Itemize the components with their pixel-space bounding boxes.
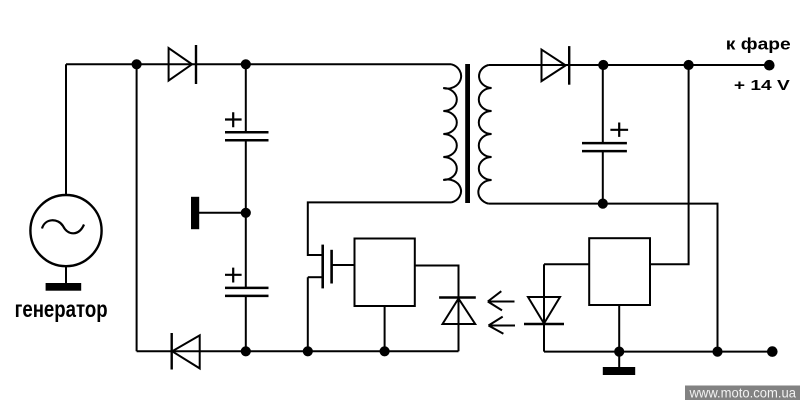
transformer T1 core [465,64,470,203]
node junction C2 bottom [242,347,250,355]
node junction C3 bottom [599,200,607,208]
diode D3 secondary rectifier [542,46,570,85]
svg-text:www.moto.com.ua: www.moto.com.ua [689,385,797,400]
diode D1 top-left [169,45,196,84]
diode D2 bottom-left [172,333,200,370]
wire secondary top horizontal [488,64,769,66]
photodiode D4 optocoupler receiver [439,298,476,352]
node junction U2 bottom [615,348,623,356]
op-amp U2 control block [589,238,650,305]
op-amp U1 control block [355,239,415,307]
transformer T1 secondary winding [478,65,491,204]
arrow light upper [488,291,515,310]
capacitor C2 [225,213,269,351]
LED D5 optocoupler emitter [524,264,564,351]
wire bottom-left horizontal [137,350,459,352]
node terminal bottom-right [768,347,777,356]
node junction source [304,347,312,355]
node junction U1 bottom [381,347,389,355]
transformer T1 primary winding [443,64,461,202]
wire bottom-right horizontal [544,351,775,353]
wire secondary bottom horizontal [488,204,717,352]
wire D5 to U2 left lead [544,263,589,265]
svg-text:+ 14 V: + 14 V [734,77,790,94]
bar electrode tap [191,197,246,229]
wire U1 bottom lead [384,306,386,351]
node junction bottom-right [713,348,721,356]
generator G1 [30,195,101,291]
ground bar [603,367,635,375]
wire U2 right lead up to top rail [650,65,689,264]
node midpoint junction [242,209,250,217]
wire left branch vertical [136,64,138,351]
capacitor C1 [225,64,269,213]
wire top-left horizontal [66,63,452,65]
watermark box [685,386,800,400]
node junction U2 riser top [685,61,693,69]
arrow light lower [489,317,516,334]
transistor Q1 MOSFET [308,245,355,289]
node junction top capacitor chain [242,60,250,68]
wire U1 right lead [415,266,459,298]
node junction C3 top [599,61,607,69]
wire primary bottom to MOSFET drain [308,202,452,255]
wire MOSFET source down [307,277,309,351]
wire U2 bottom lead [618,305,620,367]
svg-text:генератор: генератор [15,296,108,322]
node terminal +14V [765,61,774,70]
svg-text:к фаре: к фаре [726,36,791,54]
capacitor C3 [582,65,628,204]
node junction top-left [133,60,141,68]
wire generator top lead [65,64,67,195]
